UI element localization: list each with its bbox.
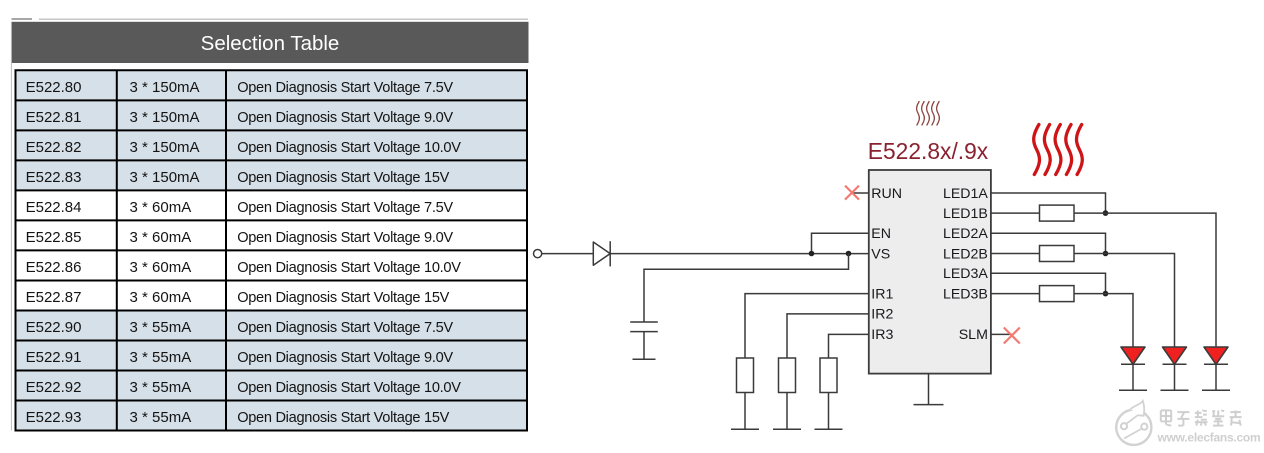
svg-text:3 * 150mA: 3 * 150mA: [130, 139, 200, 156]
svg-text:E522.85: E522.85: [26, 229, 82, 246]
svg-text:3 * 60mA: 3 * 60mA: [130, 199, 192, 216]
svg-text:LED2A: LED2A: [943, 226, 988, 242]
svg-text:www.elecfans.com: www.elecfans.com: [1157, 430, 1261, 444]
svg-text:Open Diagnosis Start Voltage 1: Open Diagnosis Start Voltage 15V: [237, 170, 449, 186]
svg-text:3 * 60mA: 3 * 60mA: [130, 229, 192, 246]
svg-text:3 * 150mA: 3 * 150mA: [130, 109, 200, 126]
svg-text:Open Diagnosis Start Voltage 9: Open Diagnosis Start Voltage 9.0V: [237, 350, 453, 366]
svg-text:E522.81: E522.81: [26, 109, 82, 126]
svg-text:Open Diagnosis Start Voltage 1: Open Diagnosis Start Voltage 15V: [237, 290, 449, 306]
svg-text:Open Diagnosis Start Voltage 7: Open Diagnosis Start Voltage 7.5V: [237, 200, 453, 216]
svg-text:EN: EN: [871, 226, 891, 242]
svg-text:Open Diagnosis Start Voltage 1: Open Diagnosis Start Voltage 15V: [237, 410, 449, 426]
svg-text:E522.8x/.9x: E522.8x/.9x: [868, 138, 989, 164]
svg-text:3 * 150mA: 3 * 150mA: [130, 79, 200, 96]
svg-text:VS: VS: [871, 246, 890, 262]
svg-text:LED2B: LED2B: [943, 246, 988, 262]
svg-text:3 * 60mA: 3 * 60mA: [130, 259, 192, 276]
svg-text:LED1B: LED1B: [943, 206, 988, 222]
svg-text:Open Diagnosis Start Voltage 9: Open Diagnosis Start Voltage 9.0V: [237, 230, 453, 246]
svg-text:Open Diagnosis Start Voltage 7: Open Diagnosis Start Voltage 7.5V: [237, 80, 453, 96]
svg-text:E522.93: E522.93: [26, 409, 82, 426]
svg-text:3 * 55mA: 3 * 55mA: [130, 319, 192, 336]
svg-text:LED3A: LED3A: [943, 266, 988, 282]
svg-text:E522.87: E522.87: [26, 289, 82, 306]
svg-text:IR1: IR1: [871, 286, 893, 302]
svg-text:3 * 55mA: 3 * 55mA: [130, 379, 192, 396]
svg-text:SLM: SLM: [959, 327, 988, 343]
svg-text:3 * 55mA: 3 * 55mA: [130, 409, 192, 426]
svg-text:3 * 150mA: 3 * 150mA: [130, 169, 200, 186]
svg-text:LED3B: LED3B: [943, 286, 988, 302]
svg-text:E522.80: E522.80: [26, 79, 82, 96]
svg-text:LED1A: LED1A: [943, 186, 988, 202]
svg-text:3 * 55mA: 3 * 55mA: [130, 349, 192, 366]
svg-text:Open Diagnosis Start Voltage 1: Open Diagnosis Start Voltage 10.0V: [237, 140, 461, 156]
svg-text:E522.84: E522.84: [26, 199, 82, 216]
svg-text:3 * 60mA: 3 * 60mA: [130, 289, 192, 306]
svg-text:E522.83: E522.83: [26, 169, 82, 186]
svg-text:E522.91: E522.91: [26, 349, 82, 366]
svg-text:E522.92: E522.92: [26, 379, 82, 396]
svg-text:Open Diagnosis Start Voltage 7: Open Diagnosis Start Voltage 7.5V: [237, 320, 453, 336]
svg-text:E522.90: E522.90: [26, 319, 82, 336]
svg-text:IR3: IR3: [871, 327, 893, 343]
svg-text:IR2: IR2: [871, 307, 893, 323]
svg-text:RUN: RUN: [871, 186, 902, 202]
svg-text:Open Diagnosis Start Voltage 1: Open Diagnosis Start Voltage 10.0V: [237, 260, 461, 276]
svg-text:E522.82: E522.82: [26, 139, 82, 156]
svg-text:Open Diagnosis Start Voltage 1: Open Diagnosis Start Voltage 10.0V: [237, 380, 461, 396]
svg-text:Selection Table: Selection Table: [201, 32, 340, 55]
svg-text:E522.86: E522.86: [26, 259, 82, 276]
svg-text:Open Diagnosis Start Voltage 9: Open Diagnosis Start Voltage 9.0V: [237, 110, 453, 126]
